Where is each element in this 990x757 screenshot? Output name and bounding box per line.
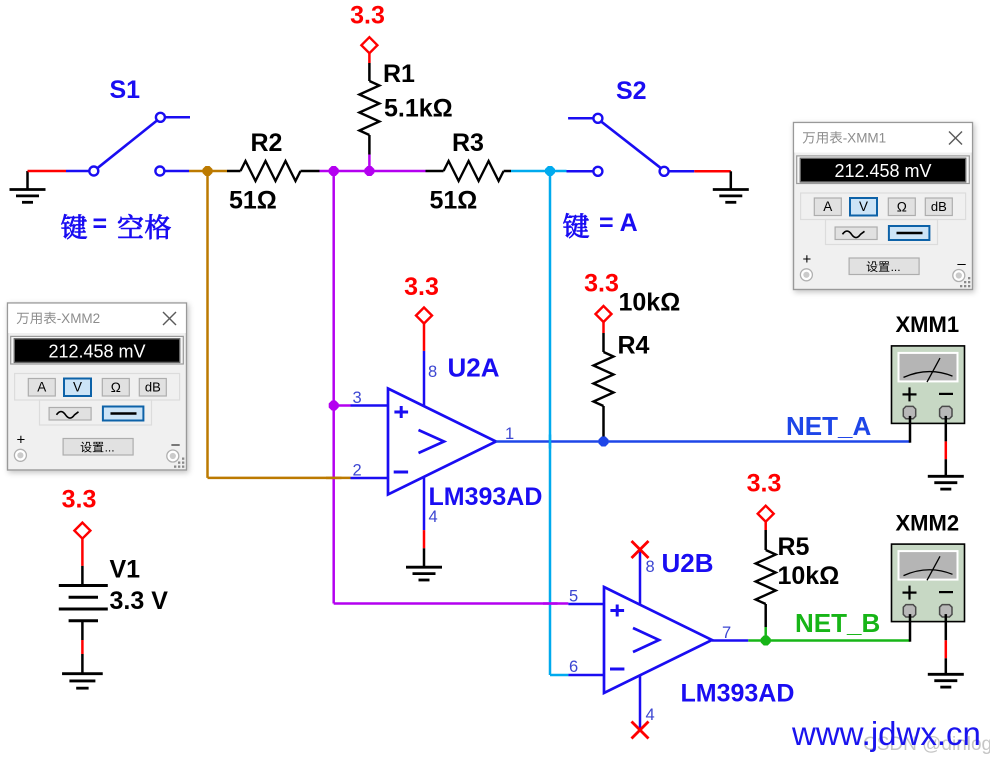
ground GND4 (V1) [62,654,103,688]
svg-text:Ω: Ω [897,200,907,215]
switch S2 [567,114,695,176]
resistor R2 [227,161,320,181]
junction (magenta) at U2A pin3 tap [329,401,339,411]
svg-text:dB: dB [931,199,947,214]
svg-text:8: 8 [646,558,655,576]
no-connect X (U2B pin 8) [632,541,649,558]
svg-text:3.3: 3.3 [584,270,619,298]
no-connect X (U2B pin 4) [632,722,649,739]
svg-text:6: 6 [569,658,578,676]
pin 7 output stub U2B [712,639,748,642]
wire U2A pin4 to ground (red segment) [423,530,426,548]
wire XMM2 + terminal to NET_B [909,614,912,642]
wire (cyan crossing over NET_A) [549,435,552,449]
svg-text:51Ω: 51Ω [229,187,277,215]
junction (blue) R4/NET_A [599,437,609,447]
wire (magenta net: R2/R1/R3 node to U2A pin3 and U2B pin5) [320,171,569,604]
svg-text:212.458 mV: 212.458 mV [834,161,931,181]
svg-text:R1: R1 [383,60,415,88]
wire (orange net: S1 throw to R2 and U2A pin2) [189,171,351,478]
svg-text:XMM2: XMM2 [896,511,960,536]
svg-text:V: V [73,380,82,395]
svg-text:212.458 mV: 212.458 mV [48,341,145,361]
pin 4 stub U2B [639,675,642,729]
svg-text:3.3: 3.3 [404,273,439,301]
svg-text:U2A: U2A [448,353,500,383]
resistor R3 [426,161,512,181]
svg-text:V1: V1 [110,556,141,584]
battery V1 3.3 V [59,566,108,640]
svg-text:8: 8 [428,363,437,381]
svg-text:V: V [859,199,868,214]
wire XMM1 + terminal to NET_A [909,416,912,443]
wire (cyan net: R3 to S2 and U2B pin6) [511,171,568,675]
pin 8 stub U2B [639,551,642,606]
svg-text:R3: R3 [452,129,484,157]
wire V1 to ground (red segment) [81,640,84,654]
svg-text:2: 2 [353,462,362,480]
wire R1 bottom (magenta) [368,155,371,172]
wire NET_B (green) [748,639,910,642]
junction (cyan) at R3/S2 [545,166,555,176]
svg-text:dB: dB [145,380,161,395]
pin 4 stub U2A [423,477,426,530]
svg-text:3.3: 3.3 [350,2,385,30]
svg-text:7: 7 [722,624,731,642]
svg-text:1: 1 [505,425,514,443]
svg-text:R5: R5 [778,533,810,561]
multimeter panel 万用表-XMM2 window [8,303,187,470]
instrument icon XMM1 [892,346,965,424]
junction (orange) at S1/R2 [203,166,213,176]
label 键 = A (key = A) [563,209,637,238]
svg-text:S1: S1 [110,76,141,104]
svg-text:+: + [803,251,812,268]
svg-text:Ω: Ω [111,380,121,395]
svg-text:3.3: 3.3 [62,486,97,514]
ground GND6 (XMM2) [928,674,964,687]
power 3.3 (V1 top) [62,486,97,566]
svg-text:10kΩ: 10kΩ [619,289,681,317]
svg-text:R4: R4 [618,332,650,360]
pin 6 stub U2B [568,674,604,677]
svg-text:...: ... [105,441,115,455]
svg-text:S2: S2 [616,77,647,105]
svg-text:R2: R2 [251,129,283,157]
svg-text:10kΩ: 10kΩ [778,562,840,590]
svg-text:...: ... [891,260,901,274]
power 3.3 (VCC at R1 top) [350,2,385,64]
ground GND1 (left of S1) [10,171,46,202]
junction (magenta) at R1 bottom [364,166,374,176]
pin 5 stub U2B [568,603,604,606]
svg-text:XMM1: XMM1 [896,312,960,337]
wire XMM1 - terminal to ground (red segment) [945,416,948,476]
instrument icon XMM2 [892,544,965,622]
pin 3 stub U2A [351,404,389,407]
svg-text:A: A [823,199,832,214]
svg-text:3.3 V: 3.3 V [110,587,169,615]
pin 2 stub U2A [351,477,389,480]
svg-text:+: + [17,432,26,449]
svg-text:-XMM2: -XMM2 [57,311,100,326]
multimeter panel 万用表-XMM1 window [794,123,973,290]
power 3.3 (R5 top) [747,470,782,531]
power 3.3 (R4 top) [584,270,619,334]
svg-text:=: = [93,210,108,238]
svg-text:5: 5 [569,588,578,606]
wire XMM2 - terminal to ground (red segment) [945,614,948,674]
ground GND5 (XMM1) [928,476,964,489]
op-amp U2A (comparator LM393AD) [388,389,496,495]
op-amp U2B (comparator LM393AD) [604,587,712,693]
wire R5 bottom (green) [764,627,767,641]
svg-text:www.jdwx.cn: www.jdwx.cn [791,715,981,752]
svg-text:= A: = A [599,209,638,237]
svg-text:3: 3 [353,389,362,407]
svg-text:A: A [37,380,46,395]
ground GND2 (right of S2) [713,171,749,202]
pin 1 output wire U2A (blue NET_A) [496,440,910,443]
wire S1 pole to ground (red segment) [28,170,67,173]
wire S2 to ground (red segment) [694,170,731,173]
svg-text:51Ω: 51Ω [430,187,478,215]
svg-text:5.1kΩ: 5.1kΩ [384,95,453,123]
wire (orange crossing over magenta) [326,477,342,480]
svg-text:NET_A: NET_A [786,411,871,441]
wire (magenta crossing over cyan) [543,602,558,605]
resistor R1 [359,63,379,155]
svg-text:-XMM1: -XMM1 [843,131,887,146]
junction (green) R5/NET_B [761,636,771,646]
switch S1 [66,113,190,176]
resistor R4 [594,333,614,442]
power 3.3 (U2A pin 8) [404,273,439,351]
svg-text:LM393AD: LM393AD [429,483,543,511]
svg-text:U2B: U2B [662,548,714,578]
label 键 = 空格 (key = Space) [61,210,170,239]
svg-text:LM393AD: LM393AD [681,680,795,708]
ground GND3 (U2A pin 4) [406,548,442,580]
svg-text:3.3: 3.3 [747,470,782,498]
svg-text:NET_B: NET_B [795,608,880,638]
pin 8 stub U2A [423,351,426,406]
resistor R5 [756,530,776,627]
junction (magenta) at R2 output [329,166,339,176]
